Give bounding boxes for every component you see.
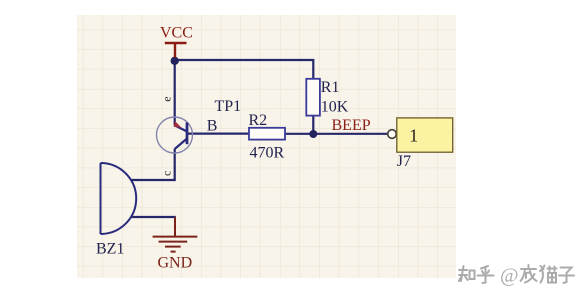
svg-text:J7: J7 xyxy=(397,153,411,170)
svg-text:BEEP: BEEP xyxy=(332,117,371,134)
svg-text:R1: R1 xyxy=(321,79,340,96)
svg-text:B: B xyxy=(207,117,218,134)
svg-text:VCC: VCC xyxy=(160,25,193,42)
svg-text:470R: 470R xyxy=(250,145,285,162)
svg-text:c: c xyxy=(159,171,173,176)
svg-text:1: 1 xyxy=(409,126,418,146)
svg-text:@: @ xyxy=(500,265,518,287)
svg-text:GND: GND xyxy=(158,255,193,272)
svg-text:TP1: TP1 xyxy=(215,98,242,115)
svg-text:BZ1: BZ1 xyxy=(96,241,124,258)
svg-text:e: e xyxy=(159,96,173,101)
svg-text:R2: R2 xyxy=(249,112,268,129)
svg-text:10K: 10K xyxy=(321,99,349,116)
